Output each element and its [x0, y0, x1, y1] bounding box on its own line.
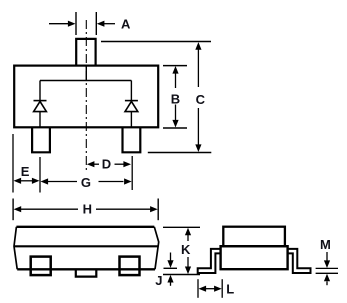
- svg-text:A: A: [121, 17, 131, 32]
- dimension L (foot length): [198, 279, 234, 298]
- dimension A (tab width): [49, 12, 131, 35]
- dimension H (overall width, side view): [13, 199, 158, 221]
- package body (top view): [14, 66, 158, 128]
- svg-text:J: J: [155, 273, 162, 288]
- svg-text:G: G: [81, 175, 91, 190]
- svg-text:C: C: [196, 92, 206, 107]
- end view body lower half: [221, 246, 288, 269]
- svg-text:M: M: [320, 237, 331, 252]
- dimension M (foot thickness): [316, 237, 338, 285]
- dimension J (lead thickness, side view): [155, 253, 177, 289]
- end view right gull-wing lead: [288, 249, 311, 273]
- pin 1 lead (top view bottom-left): [32, 128, 50, 153]
- side view pin 3 tab: [76, 270, 97, 277]
- side view body outline: [14, 227, 159, 269]
- side view pin 1 lead: [31, 257, 51, 276]
- dimension C (tab top to lead bottom): [101, 42, 211, 153]
- dimension B (body height): [163, 66, 187, 128]
- diode D1 (left, cathode up): [34, 101, 47, 127]
- svg-text:H: H: [83, 202, 92, 217]
- dimension E (body edge to lead center): [13, 134, 40, 193]
- svg-text:B: B: [171, 92, 180, 107]
- dimension G (lead center to lead center): [41, 156, 133, 190]
- diode D2 (right, cathode up): [125, 101, 138, 127]
- vertical centerline (dash-dot): [85, 20, 87, 172]
- end view left gull-wing lead: [198, 249, 221, 273]
- svg-text:D: D: [102, 157, 111, 172]
- pin 3 tab lead (top view): [76, 39, 95, 66]
- dimension K (height): [163, 227, 200, 274]
- svg-text:E: E: [21, 164, 30, 179]
- side view pin 2 lead: [120, 257, 140, 276]
- pin 2 lead (top view bottom-right): [123, 128, 141, 153]
- dimension D (centerline to lead center): [87, 157, 131, 172]
- internal wire from tab to cathode rail: [40, 66, 131, 100]
- end view body upper half: [223, 227, 285, 247]
- svg-text:K: K: [181, 242, 191, 257]
- svg-text:L: L: [226, 281, 234, 296]
